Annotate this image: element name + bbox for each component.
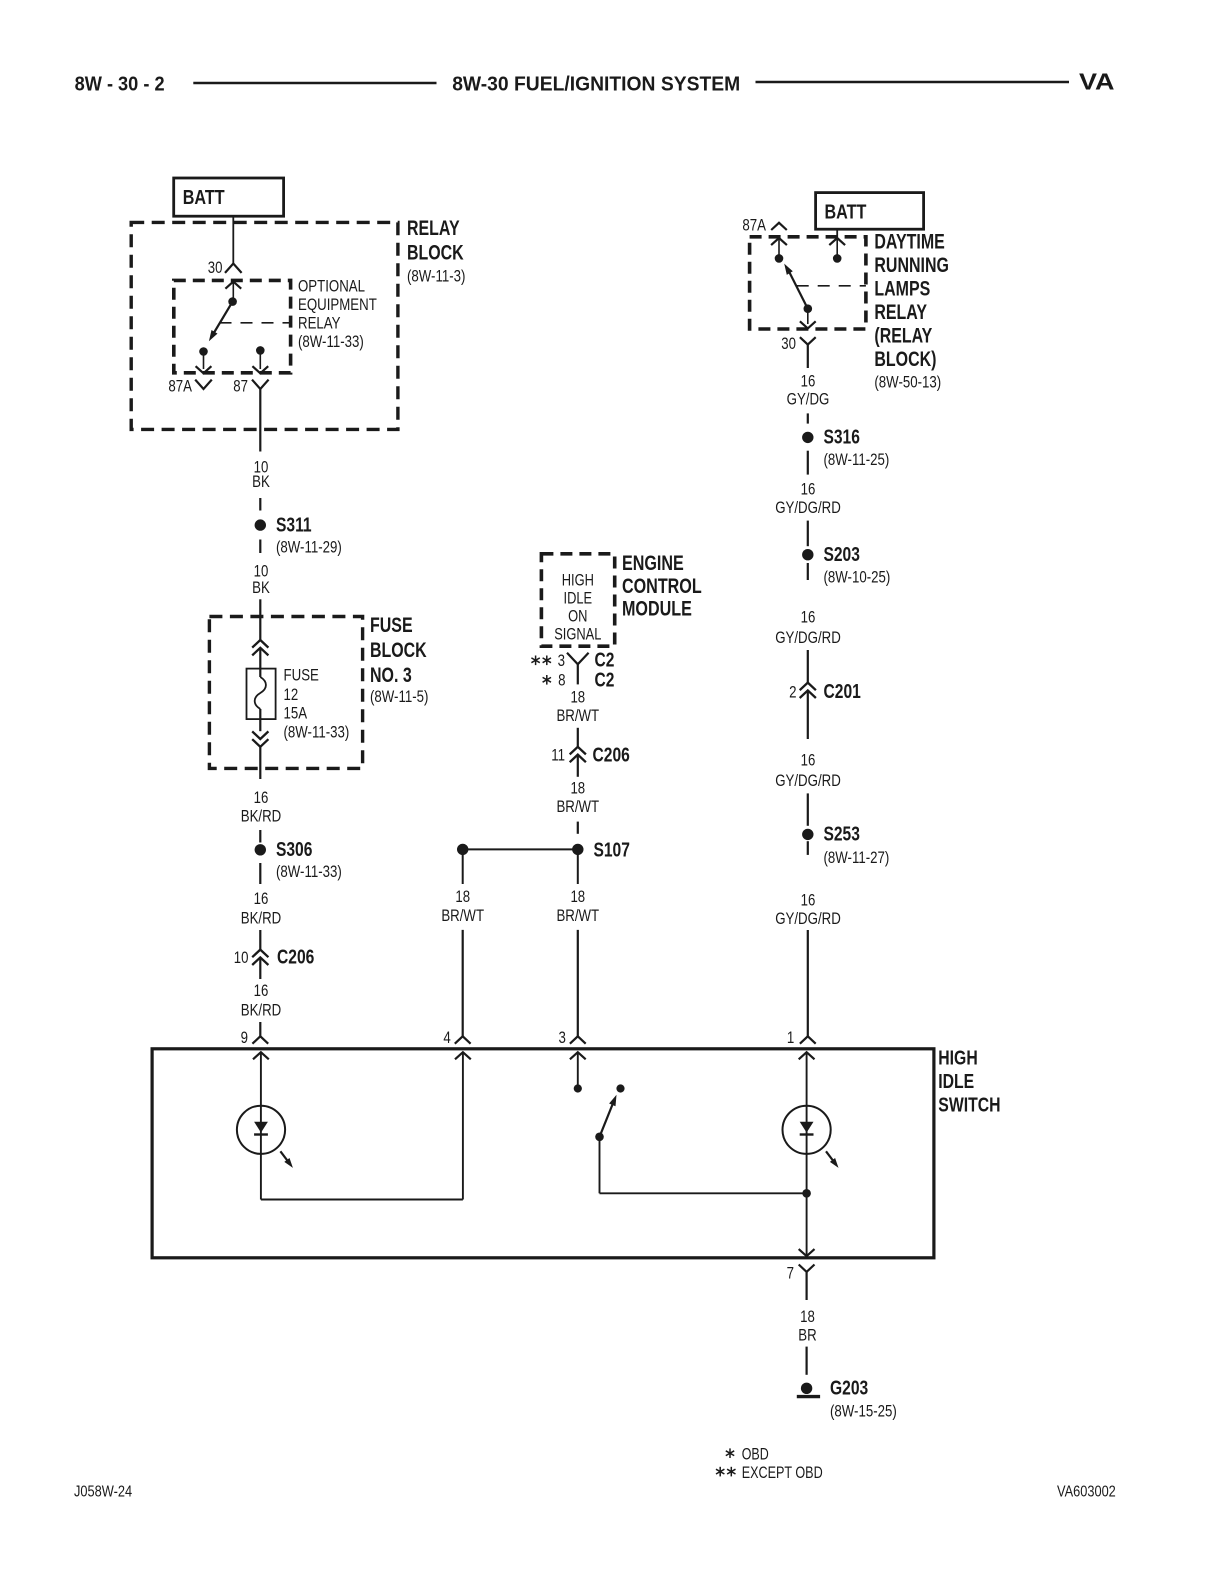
- svg-text:EQUIPMENT: EQUIPMENT: [298, 295, 377, 314]
- svg-text:18: 18: [570, 887, 585, 906]
- svg-text:3: 3: [558, 651, 565, 670]
- svg-text:S311: S311: [276, 515, 312, 537]
- svg-text:11: 11: [551, 745, 565, 764]
- svg-text:10: 10: [234, 948, 249, 967]
- svg-text:GY/DG/RD: GY/DG/RD: [775, 909, 841, 928]
- svg-text:16: 16: [801, 607, 816, 626]
- svg-text:G203: G203: [830, 1378, 868, 1400]
- svg-text:1: 1: [787, 1028, 794, 1047]
- svg-text:16: 16: [254, 889, 269, 908]
- svg-text:BR/WT: BR/WT: [556, 906, 599, 925]
- svg-text:(8W-10-25): (8W-10-25): [824, 568, 891, 587]
- svg-text:OBD: OBD: [742, 1444, 769, 1463]
- svg-text:16: 16: [801, 479, 816, 498]
- svg-text:C206: C206: [277, 947, 314, 969]
- svg-text:S107: S107: [594, 840, 630, 862]
- svg-text:GY/DG: GY/DG: [787, 390, 830, 409]
- svg-text:IDLE: IDLE: [564, 590, 593, 608]
- svg-text:16: 16: [801, 371, 816, 390]
- svg-text:(8W-11-33): (8W-11-33): [284, 723, 350, 742]
- svg-text:RELAY: RELAY: [407, 217, 460, 240]
- svg-text:(8W-11-27): (8W-11-27): [824, 848, 890, 867]
- svg-text:16: 16: [254, 788, 269, 807]
- svg-text:BR/WT: BR/WT: [556, 706, 599, 725]
- svg-text:GY/DG/RD: GY/DG/RD: [775, 771, 841, 790]
- svg-text:3: 3: [559, 1028, 566, 1047]
- svg-text:(8W-11-29): (8W-11-29): [276, 538, 342, 557]
- svg-text:8: 8: [558, 671, 565, 690]
- svg-text:C206: C206: [593, 745, 630, 767]
- svg-text:LAMPS: LAMPS: [874, 278, 930, 301]
- svg-text:18: 18: [800, 1307, 815, 1326]
- svg-text:EXCEPT OBD: EXCEPT OBD: [742, 1463, 823, 1482]
- svg-text:12: 12: [284, 685, 299, 704]
- svg-text:FUSE: FUSE: [284, 666, 319, 685]
- svg-text:S316: S316: [824, 427, 860, 449]
- svg-text:18: 18: [455, 887, 470, 906]
- svg-text:BLOCK: BLOCK: [370, 639, 427, 662]
- svg-text:RELAY: RELAY: [874, 301, 927, 324]
- svg-text:GY/DG/RD: GY/DG/RD: [775, 498, 841, 517]
- svg-text:(8W-50-13): (8W-50-13): [874, 373, 941, 392]
- svg-text:8W - 30 - 2: 8W - 30 - 2: [75, 72, 165, 95]
- svg-text:C2: C2: [595, 670, 615, 692]
- svg-text:BR: BR: [798, 1326, 816, 1345]
- svg-text:RELAY: RELAY: [298, 314, 341, 333]
- svg-text:30: 30: [208, 258, 223, 277]
- svg-text:S203: S203: [824, 544, 860, 566]
- svg-text:(8W-11-33): (8W-11-33): [298, 332, 364, 351]
- svg-text:VA603002: VA603002: [1057, 1484, 1116, 1501]
- svg-text:(8W-11-25): (8W-11-25): [824, 450, 890, 469]
- svg-text:87A: 87A: [168, 377, 192, 396]
- svg-text:DAYTIME: DAYTIME: [874, 231, 944, 254]
- svg-text:7: 7: [787, 1263, 794, 1282]
- svg-text:BR/WT: BR/WT: [441, 906, 484, 925]
- svg-text:BATT: BATT: [183, 186, 225, 209]
- svg-text:C201: C201: [824, 681, 861, 703]
- svg-text:ENGINE: ENGINE: [622, 551, 684, 575]
- svg-text:S306: S306: [276, 839, 312, 861]
- svg-text:BATT: BATT: [825, 201, 867, 224]
- svg-text:CONTROL: CONTROL: [622, 574, 702, 598]
- svg-text:16: 16: [254, 981, 269, 1000]
- svg-text:MODULE: MODULE: [622, 597, 692, 621]
- svg-text:BK/RD: BK/RD: [241, 807, 282, 826]
- svg-text:(8W-15-25): (8W-15-25): [830, 1402, 897, 1421]
- svg-text:GY/DG/RD: GY/DG/RD: [775, 628, 841, 647]
- svg-text:C2: C2: [595, 650, 615, 672]
- svg-text:J058W-24: J058W-24: [74, 1484, 132, 1501]
- svg-text:VA: VA: [1079, 69, 1115, 95]
- svg-text:RUNNING: RUNNING: [874, 254, 949, 277]
- svg-text:16: 16: [801, 751, 816, 770]
- svg-text:30: 30: [781, 334, 796, 353]
- svg-text:BK: BK: [252, 578, 270, 597]
- svg-text:87A: 87A: [742, 216, 766, 235]
- svg-text:OPTIONAL: OPTIONAL: [298, 277, 365, 296]
- svg-text:2: 2: [789, 682, 796, 701]
- svg-text:IDLE: IDLE: [938, 1070, 974, 1093]
- svg-text:18: 18: [570, 687, 585, 706]
- svg-text:SWITCH: SWITCH: [938, 1093, 1000, 1116]
- svg-text:18: 18: [570, 778, 585, 797]
- svg-text:ON: ON: [568, 608, 587, 626]
- svg-text:SIGNAL: SIGNAL: [554, 626, 601, 644]
- svg-text:HIGH: HIGH: [562, 572, 594, 590]
- svg-text:S253: S253: [824, 824, 860, 846]
- svg-text:NO. 3: NO. 3: [370, 664, 412, 687]
- svg-text:BK: BK: [252, 472, 270, 491]
- svg-text:FUSE: FUSE: [370, 614, 413, 637]
- svg-text:16: 16: [801, 890, 816, 909]
- svg-text:(8W-11-5): (8W-11-5): [370, 687, 428, 706]
- svg-text:4: 4: [443, 1028, 450, 1047]
- svg-text:BK/RD: BK/RD: [241, 909, 282, 928]
- svg-text:BR/WT: BR/WT: [556, 797, 599, 816]
- svg-text:BLOCK): BLOCK): [874, 348, 936, 371]
- svg-text:(8W-11-3): (8W-11-3): [407, 267, 465, 286]
- svg-text:(8W-11-33): (8W-11-33): [276, 862, 342, 881]
- svg-text:8W-30 FUEL/IGNITION SYSTEM: 8W-30 FUEL/IGNITION SYSTEM: [452, 72, 740, 95]
- svg-text:HIGH: HIGH: [938, 1047, 977, 1070]
- svg-text:87: 87: [233, 377, 248, 396]
- svg-text:BK/RD: BK/RD: [241, 1000, 282, 1019]
- svg-text:BLOCK: BLOCK: [407, 241, 464, 264]
- svg-text:15A: 15A: [284, 704, 308, 723]
- svg-text:(RELAY: (RELAY: [874, 325, 932, 348]
- svg-text:9: 9: [241, 1028, 248, 1047]
